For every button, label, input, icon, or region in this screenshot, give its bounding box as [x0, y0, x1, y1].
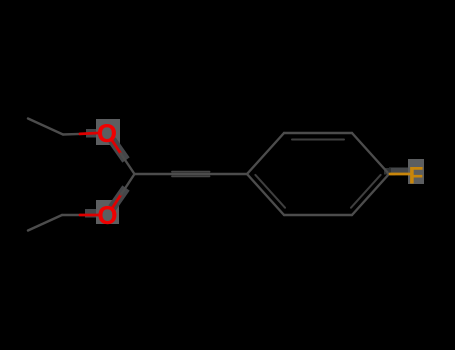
ring bond BL-L (double): [247, 174, 284, 215]
bond Ca-Cb triple upper line: [172, 171, 210, 173]
bond Ca-Cb triple center line: [172, 173, 210, 175]
bond ring-F (carbon half): [389, 173, 395, 175]
ring bond R-BR (double): [352, 174, 389, 215]
svg-text:F: F: [409, 163, 424, 190]
bond CH3-CH2 bottom ethyl: [28, 215, 62, 231]
clear-zone band O top toward C1: [112, 140, 126, 160]
clear-zone band left of O top: [86, 129, 96, 138]
ring bond BR-BL: [284, 214, 352, 216]
svg-text:O: O: [98, 202, 118, 230]
ring bond TL-TR inner line: [292, 139, 344, 141]
ring bond TR-R: [352, 133, 389, 174]
ring bond L-TL: [247, 133, 284, 174]
bond C1-Ca single: [135, 173, 173, 175]
svg-text:O: O: [97, 120, 117, 148]
ring bond TL-TR (double): [284, 132, 352, 134]
ring bond BL-L inner line: [255, 175, 285, 208]
label patch O bottom: [96, 200, 119, 224]
bond O-C1 top (carbon half): [121, 154, 135, 175]
clear-zone band O bottom toward C1: [112, 188, 126, 208]
bond Ca-Cb triple lower line: [172, 175, 210, 177]
bond O-C1 top (oxygen half): [112, 141, 121, 154]
clear-zone band left of F: [389, 168, 408, 175]
bond CH2-O bottom (carbon half): [62, 214, 80, 216]
bond Cb-ring single: [210, 173, 248, 175]
bond O-C1 bottom (carbon half): [121, 174, 135, 195]
clear-zone square at ring R vertex: [384, 168, 391, 175]
bond CH2-O top (carbon half): [63, 133, 80, 136]
bond CH2-O top (oxygen half): [80, 132, 99, 136]
label patch F: [408, 159, 424, 184]
ring bond R-BR inner line: [351, 175, 381, 208]
bond ring-F (fluorine half): [390, 173, 410, 176]
bond O-C1 bottom (oxygen half): [113, 195, 121, 208]
label patch O top: [96, 119, 120, 145]
clear-zone band left of O bottom: [85, 209, 96, 218]
bond CH2-O bottom (oxygen half): [80, 214, 99, 217]
bond CH3-CH2 top ethyl: [28, 119, 63, 135]
